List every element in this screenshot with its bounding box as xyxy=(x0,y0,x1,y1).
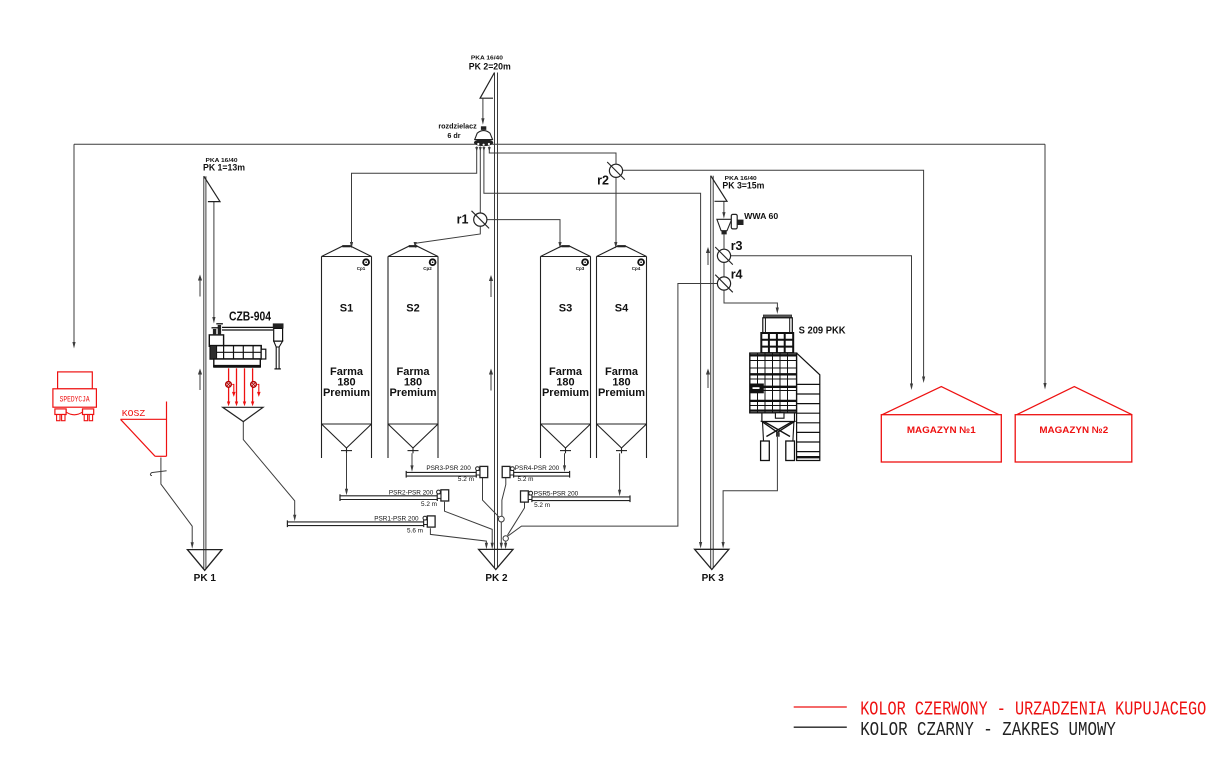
svg-text:SPEDYCJA: SPEDYCJA xyxy=(60,395,91,405)
flow arrow PK2 up 1 xyxy=(489,275,493,297)
label WWA 60 xyxy=(744,211,778,221)
red discharge arrows under CZB-904 xyxy=(226,368,261,406)
svg-text:r4: r4 xyxy=(731,267,743,281)
label PK2 xyxy=(469,56,511,73)
svg-text:PK 1: PK 1 xyxy=(194,573,217,584)
svg-text:Cp1: Cp1 xyxy=(357,266,366,271)
legend black text xyxy=(860,719,1116,741)
svg-text:Premium: Premium xyxy=(542,387,589,399)
svg-text:rozdzielacz: rozdzielacz xyxy=(438,121,477,130)
svg-text:PK 1=13m: PK 1=13m xyxy=(203,162,245,173)
svg-text:MAGAZYN №2: MAGAZYN №2 xyxy=(1039,425,1108,436)
svg-text:5.2 m: 5.2 m xyxy=(421,501,437,508)
legend red line xyxy=(794,706,847,708)
svg-text:KOLOR CZARNY - ZAKRES UMOWY: KOLOR CZARNY - ZAKRES UMOWY xyxy=(860,719,1116,741)
wire PSR5 drop to junction xyxy=(507,502,524,536)
wire r1 to silo S3 xyxy=(487,220,562,249)
valve r3 xyxy=(715,247,733,265)
svg-text:r3: r3 xyxy=(731,239,743,253)
wire silo S3 outlet to PSR4 xyxy=(563,453,566,472)
svg-text:S1: S1 xyxy=(340,303,353,315)
label r1 xyxy=(457,212,469,226)
svg-text:5.2 m: 5.2 m xyxy=(458,476,474,483)
node junction circle 2 xyxy=(503,536,508,541)
svg-text:KOLOR CZERWONY - URZADZENIA KU: KOLOR CZERWONY - URZADZENIA KUPUJACEGO xyxy=(860,698,1206,720)
flow arrow PK1 up 1 xyxy=(198,275,202,297)
wire rozdzielacz to valve r1 xyxy=(479,147,481,214)
label PK1 xyxy=(203,158,245,173)
elevator PK3 legs and boot xyxy=(695,176,729,585)
label r3 xyxy=(731,239,743,253)
svg-text:r1: r1 xyxy=(457,212,469,226)
svg-text:Cp2: Cp2 xyxy=(423,266,432,271)
svg-text:PSR3-PSR 200: PSR3-PSR 200 xyxy=(426,465,471,472)
wire r3 to MAGAZYN 1 xyxy=(731,256,913,390)
conveyor PSR2-PSR 200 xyxy=(340,489,449,508)
wire PK 1 head to CZB-904 xyxy=(212,202,215,324)
svg-text:PSR1-PSR 200: PSR1-PSR 200 xyxy=(374,515,419,522)
label CZB-904 xyxy=(229,310,271,324)
svg-text:5.2 m: 5.2 m xyxy=(518,476,534,483)
svg-text:S4: S4 xyxy=(615,303,629,315)
wire silo S2 outlet to PSR3 xyxy=(410,453,413,472)
wire r1 to silo S2 xyxy=(414,226,481,248)
label r4 xyxy=(731,267,743,281)
wire PSR1 drop to PK 2 boot xyxy=(430,528,488,549)
valve r1 xyxy=(472,211,490,229)
wire r3 to r4 xyxy=(723,263,725,277)
silo S4 Farma 180 Premium xyxy=(597,246,647,458)
silo S3 Farma 180 Premium xyxy=(541,246,591,458)
elevator PK2 head xyxy=(480,73,494,99)
wire rozdzielacz to PK 3 boot xyxy=(484,147,702,549)
svg-text:PSR5-PSR 200: PSR5-PSR 200 xyxy=(534,491,579,498)
wire r2 to MAGAZYN 1 xyxy=(623,170,926,383)
wire KOSZ to PK 1 boot xyxy=(150,458,193,549)
label S 209 PKK xyxy=(799,324,846,336)
svg-text:5.2 m: 5.2 m xyxy=(534,502,550,509)
wire r4 to dryer S 209 PKK xyxy=(724,290,779,314)
wire dryer to PK 3 boot xyxy=(722,437,778,549)
svg-text:PK 2: PK 2 xyxy=(485,573,508,584)
wire PK 3 head to WWA 60 xyxy=(722,201,725,218)
legend black line xyxy=(794,726,847,728)
svg-text:6 dr: 6 dr xyxy=(447,131,460,140)
valve r4 xyxy=(715,275,733,293)
warehouse MAGAZYN 1 xyxy=(881,387,1001,462)
elevator PK1 head xyxy=(204,176,220,201)
wire r4 return to PK 2 boot xyxy=(508,284,717,536)
svg-text:5.6 m: 5.6 m xyxy=(407,527,423,534)
distributor rozdzielacz 6dr symbol xyxy=(474,126,493,151)
hopper KOSZ xyxy=(121,402,167,457)
svg-text:PK 3=15m: PK 3=15m xyxy=(722,180,764,191)
wire rozdzielacz to silo S1 xyxy=(350,147,477,249)
wire junction2 to PK 2 boot xyxy=(504,541,507,549)
flow arrow PK2 up 2 xyxy=(489,369,493,391)
label rozdzielacz xyxy=(438,121,477,140)
wire PSR2 drop to PK 2 boot xyxy=(445,502,494,550)
wire CZB-904 funnel to PSR1 xyxy=(243,422,296,522)
silo S1 Farma 180 Premium xyxy=(322,246,372,458)
conveyor PSR5-PSR 200 xyxy=(521,491,631,509)
svg-text:Premium: Premium xyxy=(598,387,645,399)
elevator PK3 head xyxy=(711,176,727,202)
svg-text:Cp3: Cp3 xyxy=(576,266,585,271)
label KOSZ xyxy=(122,408,146,419)
svg-text:PK 3: PK 3 xyxy=(702,573,725,584)
svg-text:MAGAZYN №1: MAGAZYN №1 xyxy=(907,425,977,436)
legend red text xyxy=(860,698,1206,720)
svg-text:Cp4: Cp4 xyxy=(632,266,641,271)
svg-text:CZB-904: CZB-904 xyxy=(229,310,271,324)
svg-text:r2: r2 xyxy=(597,174,609,188)
conveyor PSR4-PSR 200 xyxy=(502,465,569,483)
dryer S 209 PKK xyxy=(750,315,820,461)
flow arrow PK3 up 1 xyxy=(706,247,710,265)
svg-text:PSR2-PSR 200: PSR2-PSR 200 xyxy=(389,489,434,496)
warehouse MAGAZYN 2 xyxy=(1015,387,1132,462)
wire rozdzielacz to valve r2 xyxy=(489,147,616,165)
conveyor PSR1-PSR 200 xyxy=(287,515,435,534)
wire junction1 to PK 2 boot xyxy=(500,522,503,549)
funnel under CZB-904 xyxy=(223,407,263,421)
separator WWA 60 xyxy=(717,214,744,234)
conveyor PSR3-PSR 200 xyxy=(406,465,487,483)
truck SPEDYCJA xyxy=(53,372,97,421)
wire silo S4 outlet to PSR5 xyxy=(618,453,621,496)
label PK3 xyxy=(722,176,764,191)
wire WWA 60 to r3 xyxy=(723,234,725,249)
wire PSR3 drop to junction xyxy=(483,477,500,518)
valve r2 xyxy=(607,162,625,180)
node junction circle 1 xyxy=(498,516,504,522)
svg-text:S2: S2 xyxy=(406,303,419,315)
svg-text:PSR4-PSR 200: PSR4-PSR 200 xyxy=(515,465,560,472)
svg-text:Premium: Premium xyxy=(389,387,436,399)
elevator PK2 legs and boot xyxy=(479,73,513,585)
svg-text:S 209 PKK: S 209 PKK xyxy=(799,324,846,336)
flow arrow PK1 up 2 xyxy=(198,369,202,391)
svg-text:Premium: Premium xyxy=(323,387,370,399)
label r2 xyxy=(597,174,609,188)
cleaner CZB-904 machine xyxy=(209,323,283,369)
svg-text:S3: S3 xyxy=(559,303,572,315)
wire main distribution line y=144 (rozdzielacz to SPEDYCJA and MAGAZYN 2) xyxy=(72,144,1046,389)
flow arrow PK3 up 2 xyxy=(706,369,710,389)
svg-text:PK 2=20m: PK 2=20m xyxy=(469,61,511,72)
svg-text:WWA 60: WWA 60 xyxy=(744,211,778,221)
silo S2 Farma 180 Premium xyxy=(388,246,438,458)
svg-text:KOSZ: KOSZ xyxy=(122,408,146,419)
wire PSR4 drop to junction xyxy=(502,477,506,516)
wire PK2 head discharge to rozdzielacz xyxy=(481,98,484,125)
elevator PK1 legs and boot xyxy=(187,176,222,584)
wire silo S1 outlet to PSR2 xyxy=(345,453,348,495)
wire r2 to silo S4 xyxy=(614,177,617,249)
